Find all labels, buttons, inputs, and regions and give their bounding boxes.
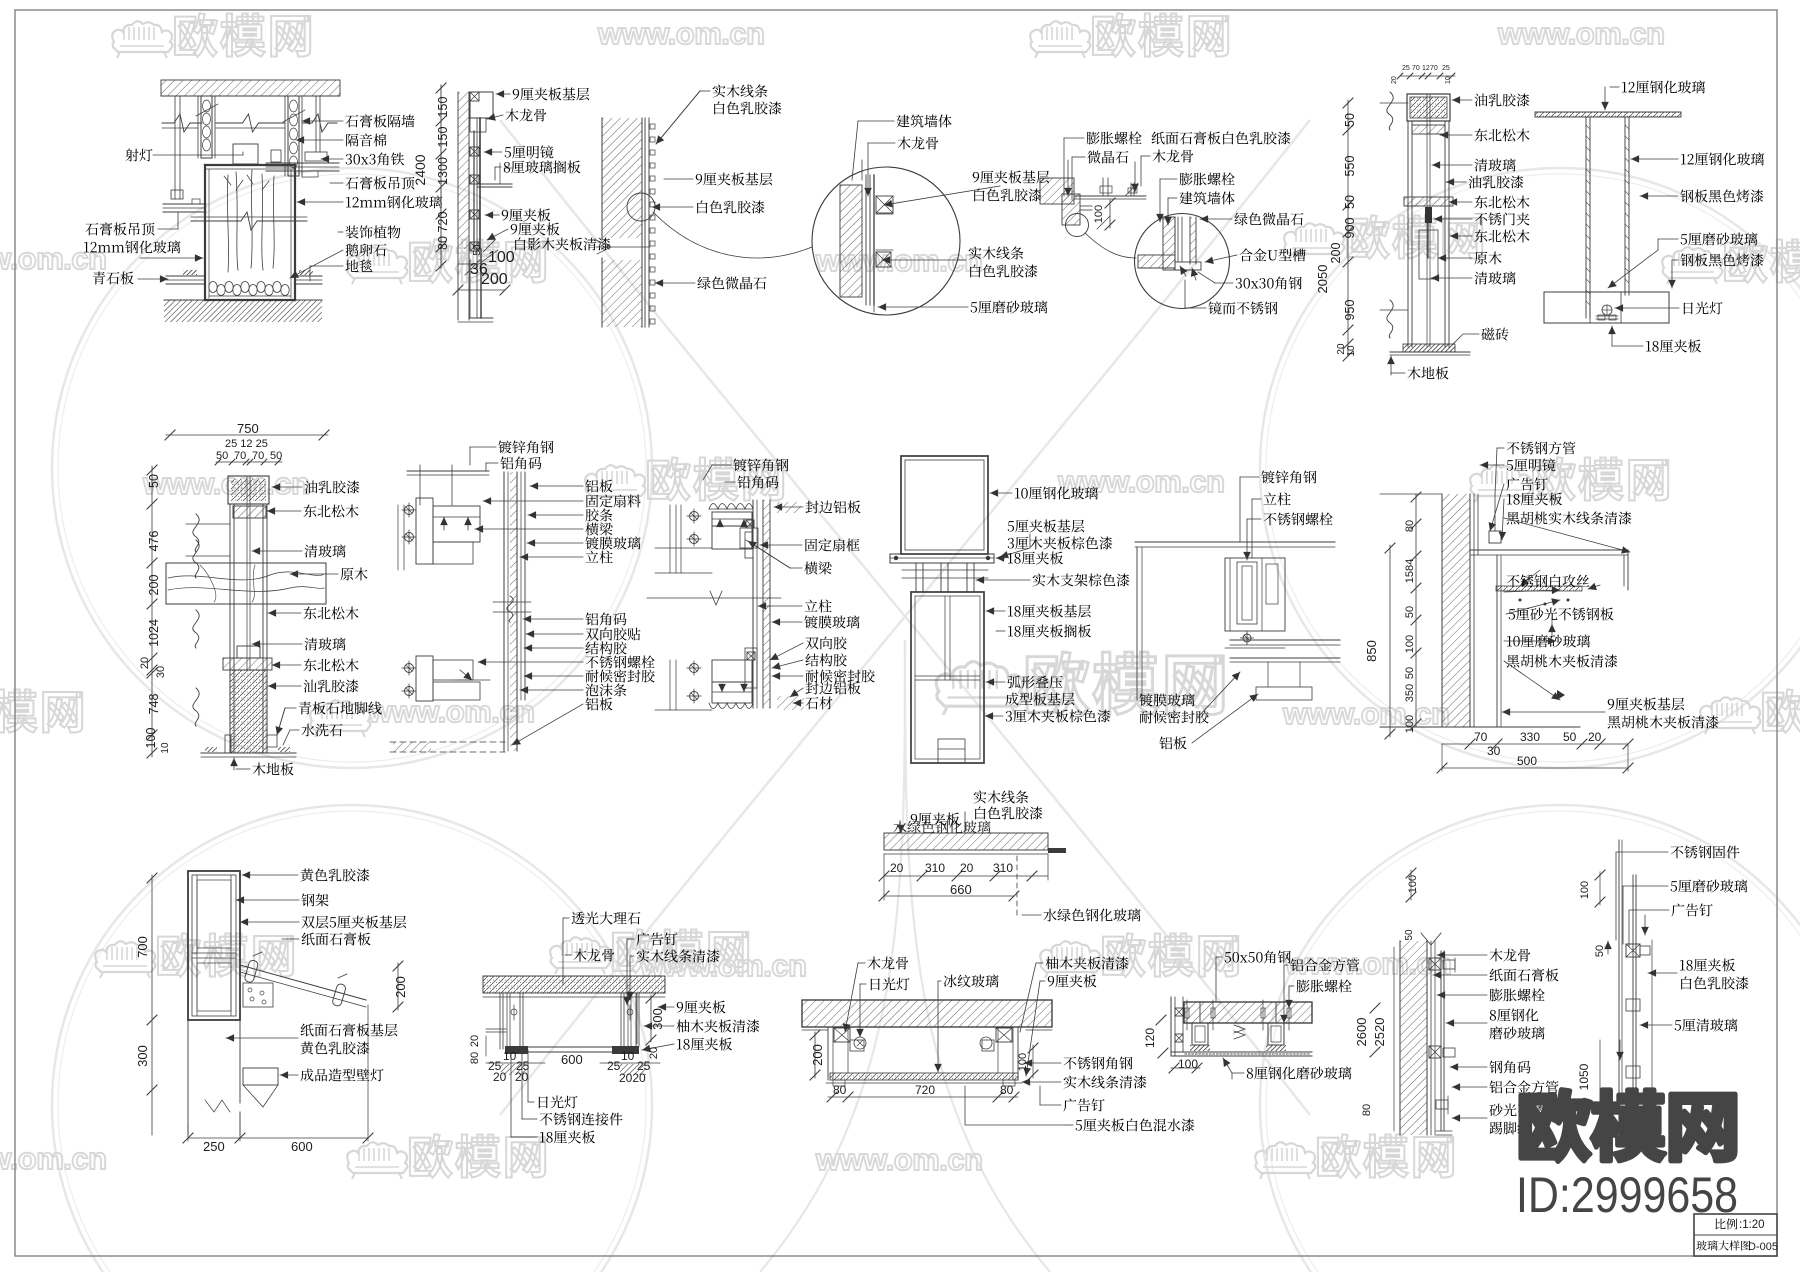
svg-text:80: 80	[1404, 520, 1416, 532]
svg-text:20: 20	[139, 657, 151, 669]
svg-text:700: 700	[135, 936, 150, 958]
svg-text:120: 120	[1143, 1028, 1157, 1048]
svg-text:70: 70	[1430, 65, 1438, 72]
svg-text:200: 200	[810, 1044, 825, 1066]
svg-text:2520: 2520	[1372, 1018, 1387, 1047]
svg-text:20: 20	[469, 1035, 481, 1047]
svg-text:150: 150	[436, 97, 450, 118]
svg-text:720: 720	[436, 212, 450, 233]
svg-text:100: 100	[1093, 205, 1105, 223]
svg-text:80: 80	[469, 1052, 481, 1064]
svg-text:30: 30	[155, 666, 167, 678]
svg-text:10: 10	[621, 1049, 635, 1063]
svg-text:www.om.cn: www.om.cn	[0, 1141, 107, 1176]
svg-text:20: 20	[648, 1047, 660, 1059]
svg-text:50: 50	[472, 244, 483, 256]
svg-text:720: 720	[915, 1083, 935, 1097]
detail D8 curtain wall mullion section	[407, 470, 489, 472]
detail D7 partition with log feature	[166, 434, 328, 436]
svg-text:www.om.cn: www.om.cn	[0, 241, 107, 276]
svg-text:www.om.cn: www.om.cn	[1497, 16, 1665, 51]
svg-text:20: 20	[1391, 76, 1398, 84]
svg-text:2050: 2050	[1315, 265, 1330, 294]
欧模网 watermark logo bottom-right	[1521, 1090, 1735, 1162]
svg-text:660: 660	[950, 882, 972, 897]
svg-text:25: 25	[1442, 65, 1450, 72]
svg-text:www.om.cn: www.om.cn	[1282, 696, 1450, 731]
svg-text:50: 50	[1404, 667, 1416, 679]
svg-text:310: 310	[993, 861, 1013, 875]
svg-text:10: 10	[1445, 76, 1452, 84]
svg-text:www.om.cn: www.om.cn	[367, 694, 535, 729]
svg-text:20: 20	[960, 861, 974, 875]
svg-text:950: 950	[1343, 300, 1357, 321]
svg-text:www.om.cn: www.om.cn	[815, 1142, 983, 1177]
svg-text:20: 20	[1588, 730, 1602, 744]
svg-text:100: 100	[1579, 881, 1591, 899]
svg-text:250: 250	[203, 1139, 225, 1154]
svg-text:100: 100	[1407, 875, 1419, 893]
title block	[1694, 1214, 1777, 1256]
svg-text::1:20: :1:20	[1739, 1219, 1765, 1231]
svg-text:100: 100	[1404, 715, 1416, 733]
detail D14 ceiling light cove	[802, 1000, 1052, 1027]
svg-text:600: 600	[561, 1052, 583, 1067]
svg-text:200: 200	[393, 976, 408, 998]
svg-text:300: 300	[135, 1045, 150, 1067]
detail D12 niche wall section	[1442, 494, 1470, 727]
detail D14a backlit marble ceiling	[483, 976, 665, 993]
svg-text:D-005: D-005	[1748, 1241, 1778, 1253]
detail D17 glass partition strip	[1618, 840, 1620, 1135]
svg-text:50: 50	[1404, 929, 1415, 941]
svg-text:2600: 2600	[1354, 1018, 1369, 1047]
svg-text:750: 750	[237, 421, 259, 436]
detail D15 suspended frosted glass ceiling	[1184, 1002, 1312, 1023]
detail D4 ceiling corner + magnify bubble	[1040, 178, 1074, 204]
svg-text:550: 550	[1343, 156, 1357, 177]
svg-text:50: 50	[1563, 730, 1577, 744]
svg-text:50: 50	[1343, 195, 1357, 209]
svg-text:25 12 25: 25 12 25	[225, 438, 268, 450]
svg-text:70: 70	[1474, 730, 1488, 744]
svg-text:100: 100	[488, 249, 515, 266]
svg-text:748: 748	[147, 694, 161, 715]
svg-text:200: 200	[481, 271, 508, 288]
svg-text:200: 200	[1329, 243, 1343, 264]
svg-text:80: 80	[1000, 1083, 1014, 1097]
svg-text:1050: 1050	[1577, 1063, 1591, 1090]
svg-text:900: 900	[1343, 218, 1357, 239]
svg-text:70: 70	[252, 450, 264, 462]
svg-text:50: 50	[1343, 113, 1357, 127]
svg-text:200: 200	[147, 575, 161, 596]
svg-text:600: 600	[291, 1139, 313, 1154]
svg-text:30: 30	[1487, 744, 1501, 758]
svg-text:50: 50	[147, 474, 161, 488]
svg-text:850: 850	[1364, 640, 1379, 662]
svg-text:80: 80	[833, 1083, 847, 1097]
svg-text:10: 10	[503, 1049, 517, 1063]
svg-text:50: 50	[216, 450, 228, 462]
svg-text:50: 50	[1404, 606, 1416, 618]
svg-text:150: 150	[436, 127, 450, 148]
svg-text:1024: 1024	[147, 619, 161, 647]
svg-text:300: 300	[650, 1008, 665, 1030]
svg-text:80: 80	[436, 236, 450, 250]
detail D2 mirror wall section	[458, 92, 469, 249]
detail D6 glass fin + light box	[1535, 112, 1681, 117]
svg-text:100: 100	[1404, 635, 1416, 653]
svg-text:100: 100	[1178, 1057, 1198, 1071]
detail D9 curtain wall mullion with scalloped sheets	[709, 504, 753, 510]
svg-text:350: 350	[1404, 684, 1416, 702]
svg-text:25: 25	[1402, 65, 1410, 72]
svg-text:500: 500	[1517, 754, 1537, 768]
svg-text:310: 310	[925, 861, 945, 875]
svg-text:10: 10	[160, 742, 171, 754]
svg-text:10: 10	[1346, 345, 1357, 357]
svg-text:50: 50	[1594, 945, 1606, 957]
svg-text:www.om.cn: www.om.cn	[597, 16, 765, 51]
svg-text:80: 80	[1361, 1104, 1373, 1116]
svg-text:1584: 1584	[1404, 559, 1416, 583]
detail D16 frosted glass on wall	[1400, 941, 1427, 1135]
detail D3 stone wall + magnify bubble	[602, 118, 642, 238]
detail D1 ceiling & glass planter section	[161, 80, 340, 96]
detail D13 sign column with brace	[188, 871, 240, 1020]
detail D11 glazed corner w/ channel	[1135, 541, 1335, 543]
detail D10 glass display stand	[901, 456, 988, 554]
svg-text:2400: 2400	[412, 154, 428, 185]
svg-text:20: 20	[890, 861, 904, 875]
svg-text:www.om.cn: www.om.cn	[142, 466, 310, 501]
svg-text:100: 100	[144, 728, 158, 749]
svg-text:1300: 1300	[436, 157, 450, 185]
svg-text:100: 100	[1017, 1053, 1029, 1071]
svg-text:70: 70	[1412, 65, 1420, 72]
detail D14b glass strip plan	[884, 833, 1048, 850]
svg-text:330: 330	[1520, 730, 1540, 744]
svg-text:12: 12	[1422, 65, 1430, 72]
svg-text:476: 476	[147, 531, 161, 552]
svg-text:70: 70	[234, 450, 246, 462]
